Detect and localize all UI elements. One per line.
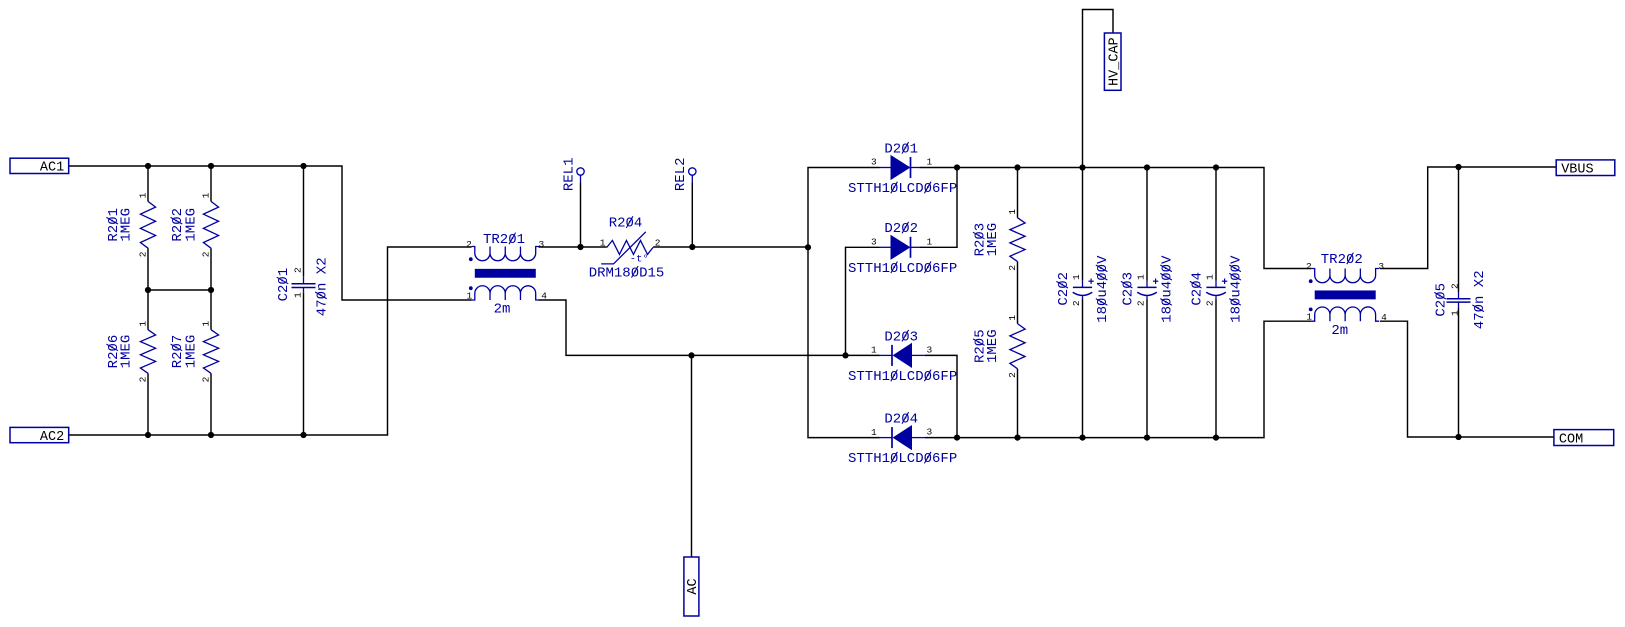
svg-text:470n X2: 470n X2 [315, 257, 331, 316]
svg-text:2: 2 [1007, 265, 1018, 271]
svg-text:3: 3 [538, 239, 544, 250]
svg-text:TR201: TR201 [483, 232, 525, 248]
svg-text:2: 2 [200, 376, 211, 382]
svg-text:REL2: REL2 [673, 157, 689, 191]
svg-text:2: 2 [137, 251, 148, 257]
svg-text:2m: 2m [494, 302, 511, 318]
svg-text:2: 2 [655, 238, 661, 249]
svg-text:1: 1 [1007, 209, 1018, 215]
svg-text:-t°: -t° [630, 254, 649, 266]
svg-text:1: 1 [1007, 315, 1018, 321]
svg-text:C204: C204 [1189, 272, 1205, 306]
svg-text:1MEG: 1MEG [184, 208, 200, 242]
svg-text:C203: C203 [1120, 272, 1136, 306]
svg-text:TR202: TR202 [1321, 252, 1363, 268]
svg-text:1MEG: 1MEG [119, 335, 135, 369]
svg-text:2: 2 [1135, 300, 1146, 306]
svg-text:3: 3 [871, 157, 877, 168]
svg-text:4: 4 [541, 291, 547, 302]
svg-text:D201: D201 [884, 141, 918, 157]
svg-text:1: 1 [200, 192, 211, 198]
svg-text:DRM180D15: DRM180D15 [589, 265, 665, 281]
svg-text:C205: C205 [1434, 283, 1450, 317]
svg-text:D202: D202 [884, 221, 918, 237]
svg-text:1MEG: 1MEG [985, 329, 1001, 363]
svg-text:1: 1 [200, 321, 211, 327]
svg-text:3: 3 [926, 427, 932, 438]
svg-text:R204: R204 [609, 216, 643, 232]
svg-text:2: 2 [466, 239, 472, 250]
svg-text:1MEG: 1MEG [985, 223, 1001, 257]
svg-text:1: 1 [137, 321, 148, 327]
svg-text:1MEG: 1MEG [184, 335, 200, 369]
svg-text:1: 1 [871, 427, 877, 438]
svg-text:2: 2 [1449, 283, 1460, 289]
svg-text:1: 1 [1204, 274, 1215, 280]
svg-text:STTH10LCD06FP: STTH10LCD06FP [848, 451, 957, 467]
svg-text:4: 4 [1381, 312, 1387, 323]
svg-text:1: 1 [926, 236, 932, 247]
svg-text:HV_CAP: HV_CAP [1108, 37, 1123, 86]
svg-text:470n X2: 470n X2 [1472, 270, 1488, 329]
svg-text:3: 3 [871, 236, 877, 247]
svg-text:AC1: AC1 [40, 161, 64, 176]
svg-text:2: 2 [292, 267, 303, 273]
svg-text:2: 2 [1071, 300, 1082, 306]
svg-text:1: 1 [1306, 312, 1312, 323]
svg-text:COM: COM [1559, 432, 1583, 447]
svg-text:STTH10LCD06FP: STTH10LCD06FP [848, 369, 957, 385]
svg-text:1: 1 [1135, 274, 1146, 280]
svg-text:3: 3 [1378, 261, 1384, 272]
svg-text:D203: D203 [884, 329, 918, 345]
svg-text:1: 1 [1449, 310, 1460, 316]
svg-text:180u400V: 180u400V [1229, 255, 1245, 323]
svg-text:STTH10LCD06FP: STTH10LCD06FP [848, 261, 957, 277]
svg-text:VBUS: VBUS [1561, 163, 1593, 178]
svg-text:1: 1 [292, 292, 303, 298]
svg-text:2: 2 [137, 376, 148, 382]
svg-text:2: 2 [1306, 261, 1312, 272]
svg-text:2: 2 [1204, 300, 1215, 306]
svg-text:1: 1 [466, 290, 472, 301]
svg-text:C202: C202 [1056, 272, 1072, 306]
svg-text:1: 1 [871, 345, 877, 356]
svg-text:180u400V: 180u400V [1160, 255, 1176, 323]
svg-text:1: 1 [137, 192, 148, 198]
svg-text:1: 1 [926, 156, 932, 167]
svg-text:AC: AC [686, 578, 701, 594]
svg-text:1: 1 [600, 238, 606, 249]
svg-text:2m: 2m [1331, 323, 1348, 339]
svg-text:D204: D204 [884, 412, 918, 428]
svg-text:REL1: REL1 [561, 157, 577, 191]
svg-text:2: 2 [200, 251, 211, 257]
svg-text:3: 3 [926, 344, 932, 355]
svg-text:2: 2 [1007, 372, 1018, 378]
svg-text:STTH10LCD06FP: STTH10LCD06FP [848, 181, 957, 197]
svg-text:180u400V: 180u400V [1095, 255, 1111, 323]
svg-text:1MEG: 1MEG [119, 208, 135, 242]
svg-text:1: 1 [1071, 274, 1082, 280]
svg-text:C201: C201 [276, 268, 292, 302]
svg-text:AC2: AC2 [40, 430, 64, 445]
